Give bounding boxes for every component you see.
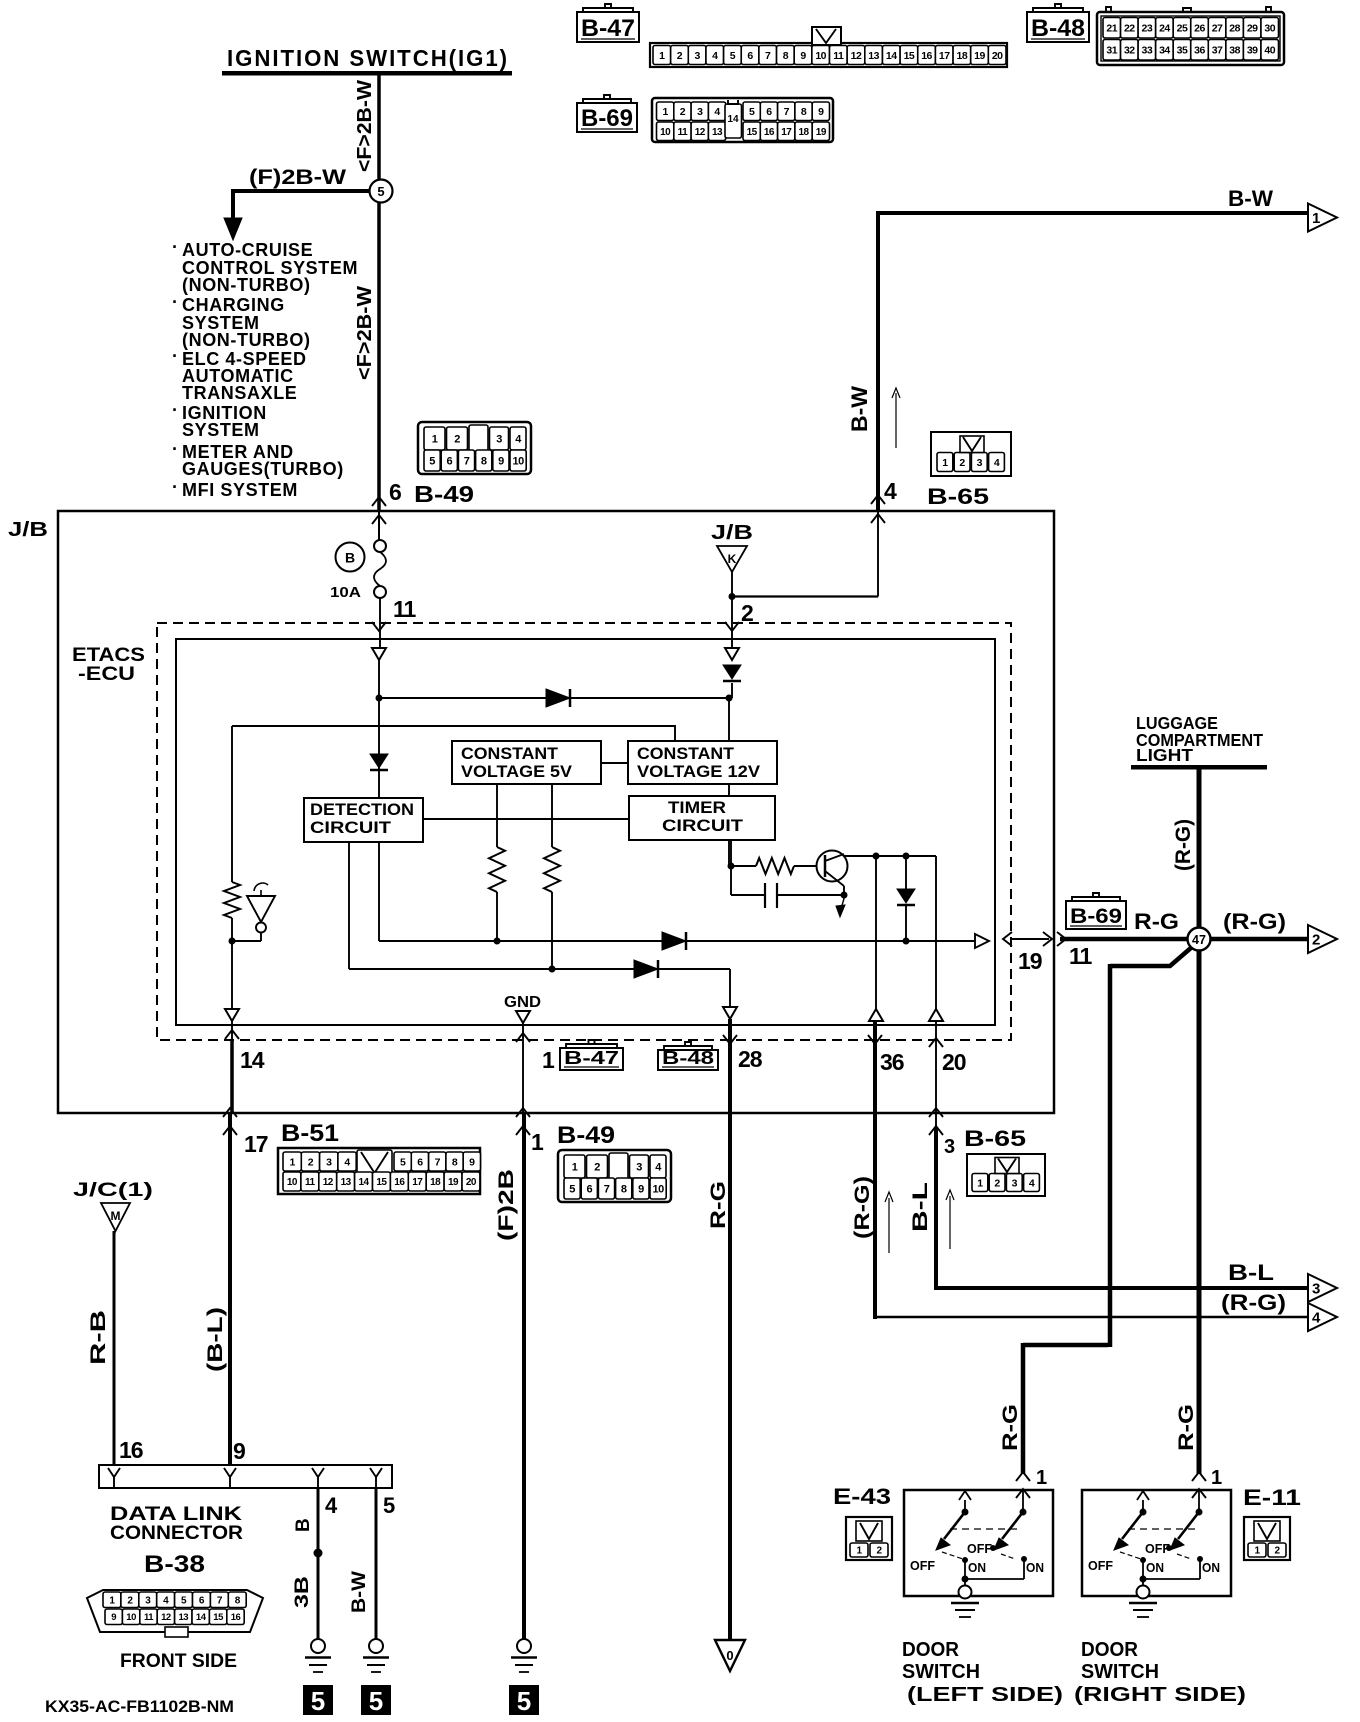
svg-text:VOLTAGE 5V: VOLTAGE 5V xyxy=(461,762,573,781)
svg-text:18: 18 xyxy=(430,1177,441,1188)
svg-text:GND: GND xyxy=(504,994,541,1011)
crossing arrows into right door switch xyxy=(1192,1472,1206,1481)
ground symbol B wire xyxy=(311,1639,325,1653)
svg-text:R-G: R-G xyxy=(999,1404,1022,1451)
svg-text:9: 9 xyxy=(818,106,824,118)
svg-text:5: 5 xyxy=(369,1686,383,1716)
ECU wire from pin 11 down xyxy=(378,660,380,941)
crossing arrow at ETACS border pin 11 xyxy=(372,622,386,631)
svg-text:R-G: R-G xyxy=(707,1181,730,1229)
svg-text:2: 2 xyxy=(1312,932,1320,949)
svg-text:10: 10 xyxy=(815,50,826,62)
svg-text:6: 6 xyxy=(389,479,402,505)
svg-text:(F)2B-W: (F)2B-W xyxy=(249,166,346,189)
svg-text:28: 28 xyxy=(738,1046,763,1072)
svg-text:·: · xyxy=(172,237,178,257)
wire pin20 down xyxy=(935,1021,937,1130)
svg-text:19: 19 xyxy=(816,127,827,138)
svg-text:16: 16 xyxy=(231,1612,241,1623)
connector B-49 (bottom) pin diagram xyxy=(558,1150,671,1202)
svg-text:E-11: E-11 xyxy=(1243,1485,1301,1510)
svg-text:LIGHT: LIGHT xyxy=(1136,745,1193,765)
svg-text:3: 3 xyxy=(1012,1177,1018,1189)
resistor left branch xyxy=(224,882,240,918)
resistor 2 xyxy=(544,847,560,892)
svg-text:SYSTEM: SYSTEM xyxy=(182,420,260,440)
door switch contact arm B xyxy=(1198,1490,1200,1512)
svg-text:33: 33 xyxy=(1142,45,1153,57)
svg-text:1: 1 xyxy=(572,1161,578,1173)
constant voltage 5V box xyxy=(452,741,601,784)
svg-text:14: 14 xyxy=(358,1177,369,1188)
svg-text:0: 0 xyxy=(726,1648,733,1663)
svg-text:8: 8 xyxy=(452,1156,458,1168)
svg-text:2: 2 xyxy=(994,1177,1000,1189)
svg-text:36: 36 xyxy=(880,1049,904,1075)
crossing arrow B-W into J/B top xyxy=(871,495,885,504)
svg-text:30: 30 xyxy=(1264,23,1275,35)
svg-text:B-L: B-L xyxy=(1228,1260,1274,1285)
svg-text:(B-L): (B-L) xyxy=(204,1307,227,1372)
connector ref box B-47 small xyxy=(560,1048,623,1070)
svg-text:1: 1 xyxy=(1211,1467,1222,1489)
svg-text:9: 9 xyxy=(498,455,504,467)
wire fuse to ETACS pin 11 xyxy=(379,598,381,647)
diode on y698 line xyxy=(546,689,570,707)
svg-text:1: 1 xyxy=(531,1129,544,1155)
svg-text:13: 13 xyxy=(712,127,723,138)
svg-text:AUTO-CRUISE: AUTO-CRUISE xyxy=(182,240,313,260)
door switch ground xyxy=(964,1579,966,1587)
circuit arrow 2 xyxy=(1308,925,1337,953)
svg-text:3: 3 xyxy=(1312,1281,1320,1298)
wire B-W horizontal to connector 1 xyxy=(876,211,1308,215)
svg-text:10A: 10A xyxy=(330,585,362,601)
svg-text:(NON-TURBO): (NON-TURBO) xyxy=(182,275,311,295)
wire pin14 crossing borders xyxy=(225,1030,239,1039)
svg-text:TIMER: TIMER xyxy=(668,798,726,817)
svg-text:12: 12 xyxy=(161,1612,171,1623)
svg-text:B-47: B-47 xyxy=(564,1048,619,1068)
connector B-65 (bottom) pin diagram xyxy=(967,1154,1045,1196)
wire resistor2 down xyxy=(551,892,553,969)
svg-text:36: 36 xyxy=(1194,45,1205,57)
svg-text:1: 1 xyxy=(942,457,948,469)
svg-text:CIRCUIT: CIRCUIT xyxy=(662,816,744,835)
crossing arrows J/B bottom border xyxy=(223,1108,237,1117)
flow arrow pin36 xyxy=(888,1198,890,1253)
connector B-48 pin diagram 21-40 xyxy=(1097,12,1284,65)
svg-text:3B: 3B xyxy=(292,1576,313,1608)
wire (R-G) luggage light to door switches xyxy=(1197,769,1202,1474)
wire R-B down to data link xyxy=(113,1231,116,1465)
wire detection to timer xyxy=(423,818,629,820)
svg-text:SWITCH: SWITCH xyxy=(1081,1661,1159,1683)
svg-text:2: 2 xyxy=(677,50,683,62)
connector B-69 pin diagram xyxy=(652,98,833,142)
wire R-G to joint 47 xyxy=(1060,937,1190,942)
svg-text:4: 4 xyxy=(344,1156,350,1168)
svg-text:4: 4 xyxy=(994,457,1000,469)
svg-text:DETECTION: DETECTION xyxy=(310,800,414,819)
svg-text:CIRCUIT: CIRCUIT xyxy=(310,818,392,837)
svg-text:R-B: R-B xyxy=(87,1310,110,1365)
wire pin28 down xyxy=(728,1019,732,1640)
junction J/B K triangle xyxy=(717,546,747,572)
svg-text:17: 17 xyxy=(244,1131,268,1157)
connector ref box B-47 xyxy=(577,12,639,42)
wire pin36 down xyxy=(873,1021,877,1319)
svg-text:ETACS: ETACS xyxy=(72,645,145,666)
svg-text:M: M xyxy=(111,1209,121,1223)
resistor 1 xyxy=(489,847,505,892)
svg-text:5: 5 xyxy=(377,184,384,199)
svg-text:17: 17 xyxy=(412,1177,423,1188)
svg-text:35: 35 xyxy=(1177,45,1188,57)
door switch contact arm B xyxy=(1022,1490,1024,1512)
wire resistor1 to gnd line xyxy=(496,892,498,941)
svg-text:MFI SYSTEM: MFI SYSTEM xyxy=(182,480,298,500)
link 5V-12V boxes xyxy=(601,762,628,764)
svg-text:31: 31 xyxy=(1106,45,1117,57)
wire (R-G) to arrow 4 xyxy=(873,1316,1308,1319)
svg-text:1: 1 xyxy=(1312,210,1320,227)
svg-text:8: 8 xyxy=(801,106,807,118)
svg-text:16: 16 xyxy=(394,1177,405,1188)
svg-text:7: 7 xyxy=(464,455,470,467)
svg-text:VOLTAGE 12V: VOLTAGE 12V xyxy=(637,762,761,781)
svg-text:B-L: B-L xyxy=(909,1182,932,1232)
svg-text:24: 24 xyxy=(1159,23,1170,35)
svg-text:15: 15 xyxy=(747,127,758,138)
svg-text:B-49: B-49 xyxy=(414,481,474,507)
svg-text:32: 32 xyxy=(1124,45,1135,57)
svg-text:20: 20 xyxy=(992,50,1003,62)
junction block J/B box xyxy=(58,511,1054,1113)
svg-text:1: 1 xyxy=(289,1156,295,1168)
svg-text:B-48: B-48 xyxy=(1031,15,1085,42)
svg-text:27: 27 xyxy=(1212,23,1223,35)
fuse B 10A xyxy=(378,511,380,541)
svg-text:7: 7 xyxy=(765,50,771,62)
crossing arrows into left door switch xyxy=(1016,1472,1030,1481)
svg-text:3: 3 xyxy=(977,457,983,469)
connector E-43 pin diagram xyxy=(846,1517,892,1560)
junction 5 circle xyxy=(370,180,393,203)
svg-text:15: 15 xyxy=(904,50,915,62)
connector B-65 (top) pin diagram xyxy=(931,432,1011,476)
branch arrow down xyxy=(231,189,235,222)
svg-text:ON: ON xyxy=(1026,1560,1044,1575)
svg-text:(R-G): (R-G) xyxy=(1221,1290,1286,1315)
svg-text:11: 11 xyxy=(678,127,689,138)
svg-text:-ECU: -ECU xyxy=(78,664,135,685)
svg-text:4: 4 xyxy=(714,106,720,118)
svg-text:1: 1 xyxy=(1036,1467,1047,1489)
wire detection bottom xyxy=(348,842,350,969)
svg-text:23: 23 xyxy=(1142,23,1153,35)
svg-text:CONSTANT: CONSTANT xyxy=(461,744,559,763)
svg-text:SWITCH: SWITCH xyxy=(902,1661,980,1683)
wire to pin 20 triangle xyxy=(935,856,937,1009)
door switch left box xyxy=(904,1490,1053,1596)
svg-text:(LEFT SIDE): (LEFT SIDE) xyxy=(907,1684,1063,1706)
door switch common wires xyxy=(1142,1560,1144,1579)
diode branch xyxy=(905,856,907,891)
connector ref box B-69 xyxy=(577,103,637,132)
svg-text:14: 14 xyxy=(886,50,897,62)
svg-text:ON: ON xyxy=(1202,1560,1220,1575)
svg-text:<F>2B-W: <F>2B-W xyxy=(354,286,376,380)
timer circuit box xyxy=(629,796,775,840)
svg-text:39: 39 xyxy=(1247,45,1258,57)
svg-text:5: 5 xyxy=(749,106,755,118)
door switch contact arm A xyxy=(959,1491,971,1500)
connector ref box B-69 right xyxy=(1066,901,1126,929)
svg-text:R-G: R-G xyxy=(1134,909,1179,934)
svg-text:4: 4 xyxy=(1312,1310,1321,1327)
svg-text:22: 22 xyxy=(1124,23,1135,35)
svg-text:11: 11 xyxy=(144,1612,154,1623)
detection circuit box xyxy=(304,798,423,842)
wire (F)2B-W from ignition switch down to J/B pin 6 xyxy=(377,75,381,511)
transistor Q1 xyxy=(817,851,848,882)
ECU output open triangle pin 28 xyxy=(723,1007,737,1019)
ground ref 5 black square xyxy=(361,1685,391,1715)
svg-text:37: 37 xyxy=(1212,45,1223,57)
svg-text:4: 4 xyxy=(325,1493,338,1518)
constant voltage 12V box xyxy=(628,741,777,784)
svg-text:B-48: B-48 xyxy=(662,1048,714,1068)
svg-text:20: 20 xyxy=(466,1177,477,1188)
crossing arrow into J/B top at pin 6 xyxy=(372,497,386,506)
svg-text:10: 10 xyxy=(126,1612,136,1623)
svg-text:OFF: OFF xyxy=(967,1541,992,1556)
svg-text:11: 11 xyxy=(833,50,844,62)
svg-text:10: 10 xyxy=(512,455,524,467)
svg-text:19: 19 xyxy=(1018,948,1042,974)
ground symbol (F)2B wire xyxy=(517,1639,531,1653)
svg-text:16: 16 xyxy=(119,1437,143,1463)
svg-text:9: 9 xyxy=(800,50,806,62)
svg-text:B-65: B-65 xyxy=(927,484,989,509)
ECU output open triangle pin 14 xyxy=(225,1009,239,1021)
svg-text:12: 12 xyxy=(695,127,706,138)
svg-text:13: 13 xyxy=(341,1177,352,1188)
line y969 xyxy=(349,968,730,970)
wire 47 to left door switch xyxy=(1110,947,1192,966)
svg-text:2: 2 xyxy=(308,1156,314,1168)
svg-text:FRONT SIDE: FRONT SIDE xyxy=(120,1651,237,1672)
svg-text:14: 14 xyxy=(727,114,739,125)
svg-text:GAUGES(TURBO): GAUGES(TURBO) xyxy=(182,459,344,479)
svg-text:6: 6 xyxy=(417,1156,423,1168)
wire to pin 36 triangle xyxy=(875,856,877,1009)
wire pin17 (B-L) down to data link xyxy=(228,1113,232,1465)
svg-text:2: 2 xyxy=(680,106,686,118)
svg-text:28: 28 xyxy=(1229,23,1240,35)
svg-text:12: 12 xyxy=(323,1177,334,1188)
connector B-38 pin diagram xyxy=(87,1590,263,1632)
flow arrow pin20 xyxy=(949,1196,951,1249)
svg-text:·: · xyxy=(172,292,178,312)
svg-text:6: 6 xyxy=(747,50,753,62)
svg-text:3: 3 xyxy=(636,1161,642,1173)
luggage light bus bar xyxy=(1131,765,1267,770)
svg-text:38: 38 xyxy=(1229,45,1240,57)
door switch dashed links xyxy=(1128,1528,1196,1530)
svg-text:3: 3 xyxy=(326,1156,332,1168)
svg-text:19: 19 xyxy=(448,1177,459,1188)
svg-text:1: 1 xyxy=(659,50,665,62)
svg-text:2: 2 xyxy=(594,1161,600,1173)
wire y969 corner down to pin28 triangle xyxy=(729,969,731,1007)
wire B-W vertical into J/B pin 4 xyxy=(876,211,880,511)
svg-text:29: 29 xyxy=(1247,23,1258,35)
svg-text:CHARGING: CHARGING xyxy=(182,295,285,315)
connector B-47 index notch xyxy=(812,27,841,45)
door switch ground xyxy=(1142,1579,1144,1587)
base resistor xyxy=(756,858,794,874)
flow arrow beside B-W wire xyxy=(895,393,897,448)
svg-text:17: 17 xyxy=(781,127,792,138)
ECU wire pin11 node to pin2 node xyxy=(379,697,729,699)
wire (R-G) to arrow 2 xyxy=(1210,937,1308,942)
svg-text:7: 7 xyxy=(435,1156,441,1168)
svg-text:2: 2 xyxy=(454,433,460,445)
wire K to ETACS pin 2 xyxy=(731,572,733,647)
svg-text:(R-G): (R-G) xyxy=(851,1176,874,1239)
svg-text:B-38: B-38 xyxy=(144,1551,205,1578)
svg-text:J/B: J/B xyxy=(711,522,753,544)
svg-text:9: 9 xyxy=(638,1183,644,1195)
svg-text:1: 1 xyxy=(977,1177,983,1189)
svg-text:4: 4 xyxy=(884,478,897,504)
wire left branch to output pin 14 xyxy=(231,941,233,1009)
svg-text:(F)2B: (F)2B xyxy=(495,1169,518,1241)
svg-text:12: 12 xyxy=(851,50,862,62)
svg-text:9: 9 xyxy=(233,1438,246,1464)
wire (F)2B-W branch to other systems xyxy=(233,189,370,193)
wire left branch down to resistor xyxy=(231,726,233,882)
svg-text:ON: ON xyxy=(968,1560,986,1575)
svg-text:·: · xyxy=(172,477,178,497)
svg-text:26: 26 xyxy=(1194,23,1205,35)
svg-text:11: 11 xyxy=(1069,943,1093,969)
door switch right box xyxy=(1082,1490,1231,1596)
diode on y941 line xyxy=(662,932,686,950)
svg-text:B-69: B-69 xyxy=(581,105,633,132)
svg-text:ON: ON xyxy=(1146,1560,1164,1575)
ground ref 5 black square xyxy=(509,1685,539,1715)
node at y698 on pin2 wire xyxy=(726,695,733,702)
svg-text:CONNECTOR: CONNECTOR xyxy=(110,1523,243,1544)
svg-text:KX35-AC-FB1102B-NM: KX35-AC-FB1102B-NM xyxy=(45,1697,234,1716)
svg-text:B: B xyxy=(293,1518,314,1532)
svg-text:TRANSAXLE: TRANSAXLE xyxy=(182,383,297,403)
svg-text:B-W: B-W xyxy=(1228,186,1273,211)
svg-text:B-W: B-W xyxy=(349,1571,370,1613)
svg-text:5: 5 xyxy=(383,1493,395,1518)
svg-text:4: 4 xyxy=(712,50,718,62)
node at y698 on pin11 wire xyxy=(376,695,383,702)
svg-text:J/C(1): J/C(1) xyxy=(73,1180,153,1201)
svg-text:CONSTANT: CONSTANT xyxy=(637,744,735,763)
svg-text:3: 3 xyxy=(694,50,700,62)
svg-text:6: 6 xyxy=(586,1183,592,1195)
circuit arrow 4 xyxy=(1308,1303,1337,1331)
svg-text:21: 21 xyxy=(1106,23,1117,35)
svg-text:B-49: B-49 xyxy=(557,1122,615,1149)
wire B from data link pin 4 xyxy=(317,1488,320,1639)
svg-text:9: 9 xyxy=(111,1612,116,1623)
wire y726 to constant voltage 12V xyxy=(232,726,675,741)
wire 5V to resistor 1 xyxy=(496,784,498,847)
door switch dashed links xyxy=(950,1528,1020,1530)
svg-text:5: 5 xyxy=(429,455,435,467)
svg-text:(R-G): (R-G) xyxy=(1172,819,1195,871)
ECU input pin 2 open triangle xyxy=(725,648,739,660)
svg-text:J/B: J/B xyxy=(8,519,48,541)
svg-text:IGNITION SWITCH(IG1): IGNITION SWITCH(IG1) xyxy=(227,45,509,71)
svg-text:·: · xyxy=(172,400,178,420)
ETACS inner box xyxy=(176,639,995,1025)
connector B-47 pin row 1-20 xyxy=(650,43,1007,67)
wire 12V box through timer xyxy=(728,698,730,866)
svg-text:B-47: B-47 xyxy=(581,15,635,42)
svg-text:1: 1 xyxy=(542,1047,555,1073)
svg-text:·: · xyxy=(172,439,178,459)
svg-text:R-G: R-G xyxy=(1175,1404,1198,1451)
svg-text:14: 14 xyxy=(196,1612,207,1623)
svg-text:DATA LINK: DATA LINK xyxy=(110,1504,242,1525)
ETACS-ECU dashed box xyxy=(157,623,1011,1040)
wire B-W from data link pin 5 xyxy=(375,1488,378,1639)
svg-text:4: 4 xyxy=(1029,1177,1035,1189)
connector ref box B-48 small xyxy=(658,1050,718,1070)
svg-text:13: 13 xyxy=(868,50,879,62)
svg-text:18: 18 xyxy=(957,50,968,62)
data link connector bar xyxy=(99,1465,392,1488)
svg-text:3: 3 xyxy=(697,106,703,118)
svg-text:<F>2B-W: <F>2B-W xyxy=(354,80,376,172)
door switch common wires xyxy=(964,1560,966,1579)
wire (F)2B down to ground xyxy=(522,1113,526,1639)
wire resistor to node xyxy=(231,918,233,941)
label pin 1 GND xyxy=(522,1021,524,1113)
svg-text:·: · xyxy=(172,346,178,366)
ground ref 5 black square xyxy=(303,1685,333,1715)
svg-text:K: K xyxy=(728,552,737,566)
svg-text:DOOR: DOOR xyxy=(902,1639,960,1661)
svg-text:B-W: B-W xyxy=(847,386,872,432)
svg-text:3: 3 xyxy=(944,1136,955,1158)
pin 28 wire end triangle 0 xyxy=(715,1640,745,1671)
svg-text:6: 6 xyxy=(766,106,772,118)
svg-text:(R-G): (R-G) xyxy=(1223,909,1286,934)
svg-text:OFF: OFF xyxy=(910,1558,935,1573)
svg-text:B-51: B-51 xyxy=(281,1120,339,1147)
ECU GND open triangle pin 1 xyxy=(516,1011,530,1023)
svg-text:7: 7 xyxy=(604,1183,610,1195)
svg-text:8: 8 xyxy=(783,50,789,62)
svg-text:5: 5 xyxy=(517,1686,531,1716)
svg-text:(RIGHT SIDE): (RIGHT SIDE) xyxy=(1074,1684,1246,1706)
ground symbol B-W wire xyxy=(369,1639,383,1653)
joint 47 xyxy=(1188,928,1211,951)
svg-text:10: 10 xyxy=(660,127,671,138)
svg-text:47: 47 xyxy=(1192,933,1206,947)
